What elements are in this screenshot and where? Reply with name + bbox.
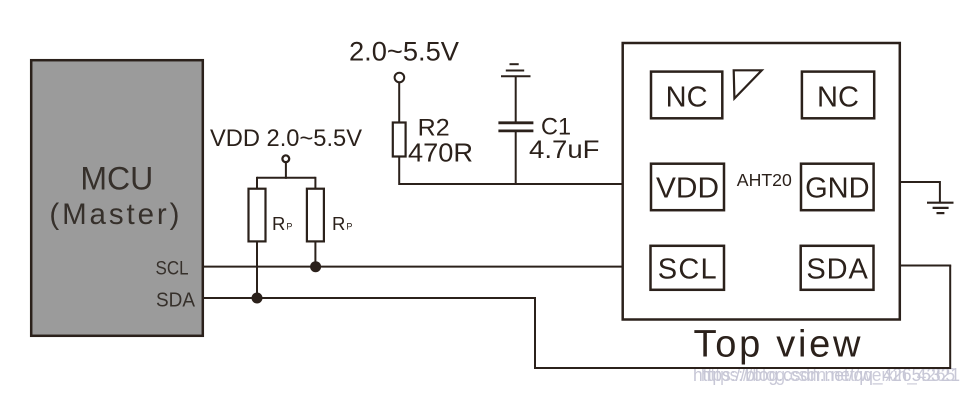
wire from VDD terminal (285, 162, 287, 179)
wire Rp2 down to SCL (314, 241, 316, 266)
svg-text:P: P (346, 222, 352, 232)
wire tee to Rp2 (314, 177, 316, 190)
svg-text:2.0~5.5V: 2.0~5.5V (349, 36, 459, 66)
wire SCL net from MCU to sensor box (203, 266, 623, 268)
wire terminal to R2 (398, 82, 400, 123)
svg-text:P: P (286, 222, 292, 232)
pin box VDD (651, 164, 724, 211)
wire R2 down to VDD bus (399, 157, 622, 185)
pin box NC top-left (651, 72, 722, 119)
svg-text:GND: GND (805, 172, 869, 204)
wire ground to C1 top plate (515, 76, 517, 122)
wire GND pin to earth (900, 182, 940, 203)
svg-text:VDD: VDD (656, 172, 719, 204)
pin box GND (801, 164, 874, 211)
pin box SCL (651, 246, 725, 290)
svg-text:4.7uF: 4.7uF (529, 136, 600, 164)
pin box NC top-right (802, 72, 874, 119)
junction dot Rp1/SDA (252, 293, 263, 304)
ground symbol right of GND (927, 203, 954, 213)
wire SDA net from MCU (203, 297, 535, 299)
MCU U1 box (31, 60, 203, 336)
svg-text:SCL: SCL (156, 257, 189, 279)
svg-text:Top view: Top view (694, 323, 862, 365)
wire pullup tee bar (257, 177, 315, 179)
ground symbol above C1 (501, 64, 531, 76)
wire C1 bottom plate to VDD bus (515, 132, 517, 186)
svg-text:MCU: MCU (80, 160, 153, 196)
wire tee to Rp1 (256, 177, 258, 190)
wire SDA vertical drop (534, 297, 536, 368)
svg-text:VDD 2.0~5.5V: VDD 2.0~5.5V (210, 125, 362, 152)
supply terminal circle for R2 (395, 73, 405, 83)
capacitor C1 plates (498, 123, 533, 131)
svg-text:SCL: SCL (658, 254, 717, 286)
svg-text:AHT20: AHT20 (737, 170, 792, 190)
svg-text:(Master): (Master) (49, 198, 179, 231)
sensor AHT20 outline box (top view) (623, 43, 900, 320)
wire SDA bottom run (534, 367, 950, 369)
resistor Rp2 (SCL pull-up) (307, 189, 324, 242)
svg-text:470R: 470R (408, 138, 473, 168)
svg-text:R: R (272, 213, 285, 234)
resistor Rp1 (SDA pull-up) (249, 189, 266, 242)
svg-text:NC: NC (817, 81, 859, 113)
watermark overlapping URL text (693, 364, 960, 386)
svg-text:R: R (332, 213, 345, 234)
wire SDA into sensor right edge (900, 265, 951, 267)
svg-text:SDA: SDA (806, 254, 868, 286)
VDD supply terminal circle (282, 155, 289, 162)
wire Rp1 down to SDA (256, 241, 258, 298)
resistor R2 (393, 123, 406, 157)
svg-text:SDA: SDA (156, 288, 195, 311)
wire SDA right riser (949, 266, 951, 370)
svg-text:NC: NC (666, 81, 708, 113)
junction dot Rp2/SCL (310, 261, 321, 272)
pin box SDA (801, 246, 874, 290)
pin 1 marker triangle (734, 70, 762, 98)
